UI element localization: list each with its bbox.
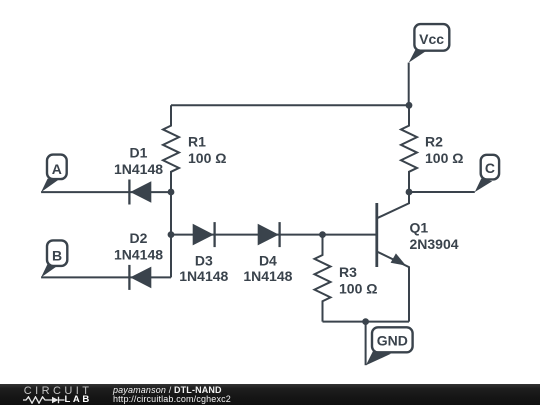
svg-text:GND: GND [377, 333, 408, 349]
svg-text:2N3904: 2N3904 [410, 236, 459, 252]
svg-text:A: A [52, 161, 62, 177]
svg-text:100 Ω: 100 Ω [188, 150, 226, 166]
svg-text:D1: D1 [130, 145, 148, 161]
svg-text:100 Ω: 100 Ω [339, 280, 377, 296]
svg-text:R1: R1 [188, 133, 206, 149]
svg-text:1N4148: 1N4148 [114, 161, 163, 177]
svg-text:C: C [485, 160, 495, 176]
svg-text:100 Ω: 100 Ω [425, 150, 463, 166]
svg-text:1N4148: 1N4148 [179, 268, 228, 284]
svg-text:D2: D2 [130, 230, 148, 246]
svg-text:R3: R3 [339, 264, 357, 280]
svg-text:1N4148: 1N4148 [243, 268, 292, 284]
svg-text:Vcc: Vcc [419, 31, 444, 47]
svg-text:1N4148: 1N4148 [114, 246, 163, 262]
svg-text:D4: D4 [259, 253, 277, 269]
svg-text:R2: R2 [425, 133, 443, 149]
svg-text:Q1: Q1 [410, 220, 429, 236]
svg-text:D3: D3 [195, 253, 213, 269]
svg-text:B: B [52, 248, 62, 264]
